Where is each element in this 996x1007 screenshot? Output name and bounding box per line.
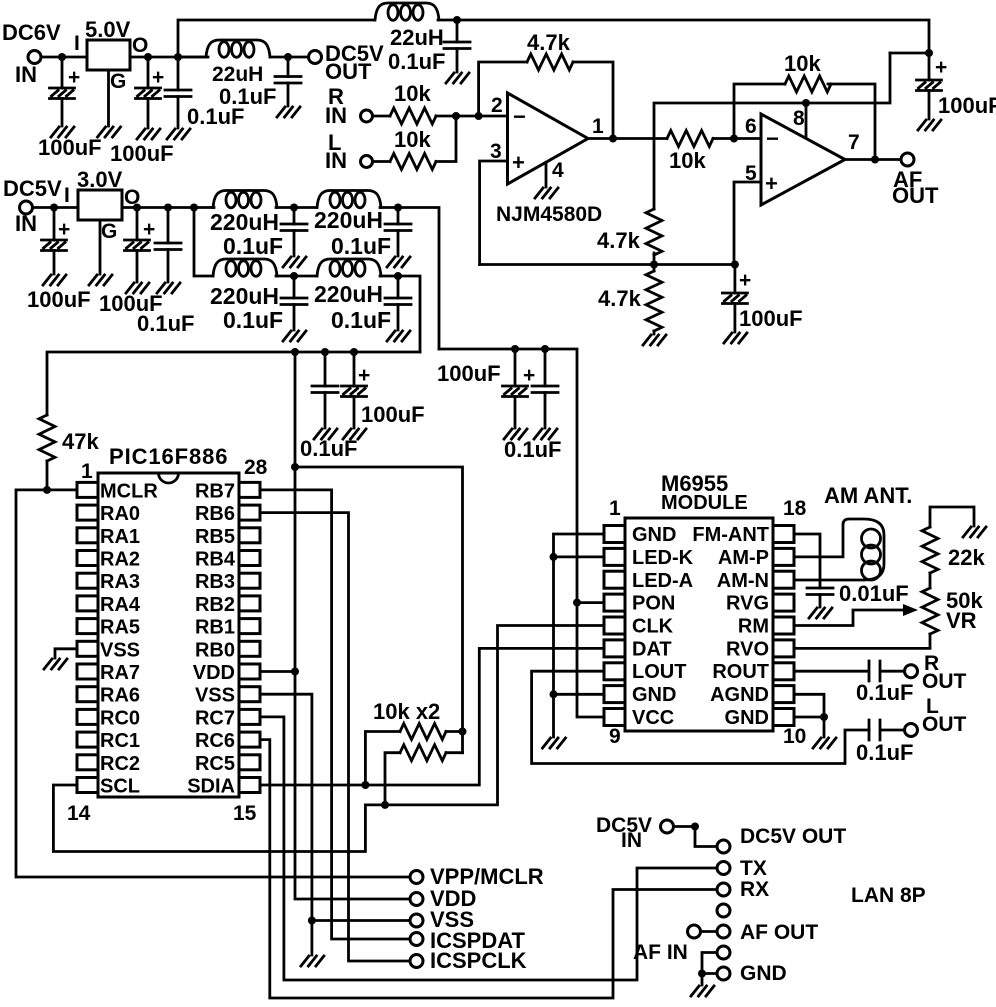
capacitor C11 0.1uF row1 [293,208,296,257]
connector DC5V IN [20,201,33,214]
pin VCC (module left 9) [604,709,625,726]
svg-text:220uH: 220uH [210,209,279,235]
pin RA6 (left 10) [77,687,98,702]
svg-text:CLK: CLK [632,616,674,638]
resistor R8 47k pullup [39,415,55,461]
svg-text:AM-N: AM-N [717,570,769,592]
pin RA5 (left 7) [77,619,98,634]
node L4 out [394,204,402,212]
wire SCL net [53,626,604,852]
pin RB3 (right 24) [239,573,260,588]
resistor R5 4.7k upper [646,209,662,255]
svg-text:DC6V: DC6V [2,20,61,45]
wire L5 to L6 [276,275,317,278]
svg-text:GND: GND [632,684,676,706]
pin RVG (module right 15) [773,594,794,611]
pin LED-A (module left 3) [604,571,625,588]
node 100uF tap [144,53,152,61]
capacitor C17 100uF bus2 [514,349,517,428]
connector TX [717,862,730,875]
pin RC0 (left 11) [77,709,98,724]
wire pin3 to bias node [480,161,508,265]
svg-text:15: 15 [233,802,257,825]
regulator U3 3.0V [78,190,122,220]
svg-text:10: 10 [783,725,806,748]
pin SCL (left 14) [77,778,98,793]
IC U4 PIC16F886 [98,473,239,797]
IC U5 M6955 MODULE [625,518,773,731]
ground LAN [691,986,714,996]
pin GND (module left 8) [604,686,625,703]
capacitor C5 0.1uF top rail [456,20,459,72]
wire to regulator input [33,206,79,209]
wire row2 to left bus [380,276,420,352]
svg-text:SCL: SCL [100,776,140,798]
svg-text:PIC16F886: PIC16F886 [109,444,228,469]
svg-text:VDD: VDD [193,662,235,684]
svg-text:0.1uF: 0.1uF [331,307,391,333]
pin RC2 (left 13) [77,755,98,770]
pin CLK (module left 5) [604,617,625,634]
svg-text:RC0: RC0 [100,707,140,729]
svg-text:OUT: OUT [922,713,967,736]
connector AF IN [717,946,730,959]
pin RC5 (right 16) [239,755,260,770]
svg-text:+: + [152,66,164,89]
wire GND pin10 [794,716,824,719]
svg-text:+: + [935,56,947,79]
pin SDIA (right 15) [239,778,260,793]
svg-text:100uF: 100uF [361,402,425,427]
svg-text:6: 6 [745,115,757,138]
svg-text:+: + [512,150,525,175]
svg-text:0.1uF: 0.1uF [504,437,561,462]
node MCLR 47k junction [43,486,51,494]
pin RB1 (right 22) [239,619,260,634]
capacitor C2 100uF output [147,57,150,128]
wire PON to rail [577,601,604,604]
svg-text:8: 8 [793,107,805,130]
capacitor C14 0.1uF row2b [397,276,400,330]
pin FM-ANT (module right 18) [773,526,794,543]
capacitor C13 0.1uF row2 [293,276,296,330]
svg-text:I: I [64,184,70,207]
wire RC6 to RX [260,740,717,998]
svg-text:100uF: 100uF [739,306,803,331]
wire L IN [373,160,391,163]
wire rail branch [890,52,929,55]
svg-text:5.0V: 5.0V [85,17,131,42]
svg-text:RA6: RA6 [100,685,140,707]
svg-text:ROUT: ROUT [712,661,769,683]
svg-text:10k: 10k [394,127,431,152]
svg-text:OUT: OUT [892,183,939,208]
pin RA0 (left 2) [77,505,98,520]
pin DAT (module left 6) [604,640,625,657]
wire row1 to right bus [380,208,439,350]
resistor R6 4.7k lower [653,265,656,272]
wire RB7 to ICSPDAT [260,490,410,939]
svg-text:RC2: RC2 [100,753,140,775]
pin VSS (left 8) [77,641,98,656]
connector DC5V OUT [717,840,730,853]
node bus2 100uF tap [511,345,519,353]
capacitor C16 100uF bus [353,352,356,428]
node bias divider [650,261,658,269]
svg-text:7: 7 [848,131,860,154]
svg-text:RA4: RA4 [100,594,141,616]
wire R5 to bias node [653,253,656,265]
node input junction [58,53,66,61]
pin RA1 (left 3) [77,528,98,543]
svg-text:18: 18 [783,497,807,520]
svg-text:0.1uF: 0.1uF [223,307,283,333]
node feedback junction [475,112,483,120]
pin PON (module left 4) [604,594,625,611]
wire AGND to ground [794,694,824,737]
svg-text:22uH: 22uH [390,25,444,50]
svg-text:14: 14 [67,802,91,825]
pin AM-N (module right 16) [773,571,794,588]
svg-text:I: I [74,32,80,55]
wire feedback loop 2 [734,84,875,160]
svg-text:RA2: RA2 [100,549,140,571]
svg-text:IN: IN [325,103,347,128]
op-amp U1b NJM4580D [761,114,845,205]
connector ICSP VSS [410,914,423,927]
svg-text:10k: 10k [394,81,431,106]
svg-text:SDIA: SDIA [187,776,235,798]
wire GND pin8 [554,693,605,696]
svg-text:0.01uF: 0.01uF [839,581,909,606]
regulator U2 5.0V [87,40,130,70]
svg-text:OUT: OUT [922,670,967,693]
capacitor C4 0.1uF [287,57,290,106]
resistor R7 10k feedback 2 [785,76,831,92]
svg-text:RX: RX [740,878,769,901]
svg-text:0.1uF: 0.1uF [856,680,913,705]
node second filter tap [190,204,198,212]
connector DC5V IN bottom [661,820,674,833]
capacitor C10 0.1uF [167,208,170,283]
svg-text:4: 4 [552,159,564,182]
wire AF IN to ground [702,953,717,986]
wire R4 to pin6 [713,137,761,140]
connector GND [717,967,730,980]
svg-text:+: + [143,218,155,241]
svg-text:+: + [68,66,80,89]
svg-text:AGND: AGND [710,684,769,706]
svg-text:1: 1 [81,460,93,483]
wire L mix riser [436,116,456,162]
wire AF OUT link [701,930,718,933]
capacitor C21 0.1uF L OUT [869,720,904,740]
svg-text:RB1: RB1 [195,617,235,639]
wire RB6 to ICSPCLK [260,513,410,961]
capacitor C18 0.1uF bus2 [544,349,547,428]
pin RB0 (right 21) [239,641,260,656]
svg-text:RC7: RC7 [195,707,235,729]
capacitor C1 100uF input [61,57,64,126]
svg-text:PON: PON [632,593,675,615]
svg-text:1: 1 [592,115,604,138]
svg-text:IN: IN [15,211,37,236]
svg-text:+: + [523,364,535,387]
svg-text:RB2: RB2 [195,594,235,616]
wire pin8 [805,103,808,139]
pin RB4 (right 25) [239,551,260,566]
wire MCLR net [16,490,410,877]
wire regulator output [122,206,214,209]
svg-text:AF IN: AF IN [633,941,688,964]
pin RC1 (left 12) [77,732,98,747]
node SCL pullup tap [381,801,389,809]
ground R6 [653,331,656,334]
wire 47k to MCLR [46,461,49,490]
svg-text:RB0: RB0 [195,639,235,661]
node PON tap [573,599,581,607]
svg-text:0.1uF: 0.1uF [388,49,445,74]
svg-text:IN: IN [325,148,347,173]
svg-text:4.7k: 4.7k [597,228,641,253]
capacitor C3 0.1uF [177,57,180,128]
connector L OUT [905,724,918,737]
svg-text:IN: IN [621,829,642,852]
svg-text:RC5: RC5 [195,753,235,775]
pin RA3 (left 5) [77,573,98,588]
node L6 out [394,272,402,280]
pin LED-K (module left 2) [604,548,625,565]
ground module rail [543,738,566,748]
svg-text:+: + [358,364,370,387]
wire pin5 to bias [734,182,761,265]
connector R IN [361,110,373,122]
svg-text:VR: VR [946,608,977,633]
pin RB6 (right 27) [239,505,260,520]
svg-text:GND: GND [740,962,787,985]
node L1 output [284,53,292,61]
svg-text:RB5: RB5 [195,526,235,548]
svg-text:FM-ANT: FM-ANT [692,524,769,546]
ground 22k [963,527,986,537]
pin AM-P (module right 17) [773,548,794,565]
svg-text:RA5: RA5 [100,617,140,639]
svg-text:LOUT: LOUT [632,661,686,683]
node pullup feed [291,463,299,471]
pin RB7 (right 28) [239,482,260,497]
capacitor C8 100uF input [53,208,56,275]
connector ICSPCLK [410,955,423,968]
svg-text:AF OUT: AF OUT [740,921,818,944]
node output AF [871,156,879,164]
pin MCLR (left 1) [77,482,98,497]
pin RC6 (right 17) [239,732,260,747]
connector spare [717,904,730,917]
connector R OUT [905,665,918,678]
op-amp U1a NJM4580D [508,93,589,184]
wire DC5V IN to OUT [674,827,717,847]
node VDD rail tap [291,348,299,356]
svg-text:220uH: 220uH [314,281,383,307]
resistor R4 10k series [667,131,713,147]
svg-text:RC6: RC6 [195,730,235,752]
svg-text:OUT: OUT [325,59,372,84]
capacitor C9 100uF output [136,208,139,283]
pin RM (module right 14) [773,617,794,634]
wire bias bus [480,263,735,266]
node pullup junction [459,728,467,736]
svg-text:LAN 8P: LAN 8P [851,884,926,907]
svg-text:MCLR: MCLR [100,480,158,502]
inductor L5 220uH row2 [213,259,277,276]
connector ICSP VDD [410,893,423,906]
node rail cap junction [925,49,933,57]
wire VR wiper to RM [794,610,908,626]
svg-text:GND: GND [725,707,769,729]
resistor R2 10k [390,154,436,170]
svg-text:100uF: 100uF [27,287,91,312]
node bus 0.1uF tap [321,348,329,356]
svg-text:RM: RM [738,616,769,638]
svg-text:0.1uF: 0.1uF [137,311,194,336]
inductor L2 22uH (top rail) [375,3,439,20]
svg-text:220uH: 220uH [314,207,383,233]
potentiometer VR1 50k [929,573,932,588]
capacitor C20 0.1uF R OUT [794,661,904,681]
node L3 out [290,204,298,212]
node L mix junction [452,112,460,120]
node GND10 tap [820,713,828,721]
resistor R9 10k SDA pullup [365,732,400,786]
connector AF OUT [717,925,730,938]
svg-text:VSS: VSS [195,685,235,707]
wire op-amp2 output [845,158,901,161]
wire VDD rail [295,352,410,899]
capacitor C19 0.01uF [807,588,833,595]
node PIC VDD tap [291,668,299,676]
wire FM-ANT to cap [794,534,820,588]
wire R IN [373,115,391,118]
svg-text:0.1uF: 0.1uF [300,436,357,461]
svg-text:RB3: RB3 [195,571,235,593]
svg-text:RA7: RA7 [100,662,140,684]
node 100uF tap [133,204,141,212]
wire op-amp1 output [588,137,667,140]
svg-text:+: + [765,171,778,196]
connector AF OUT [901,153,914,166]
capacitor C12 0.1uF row1b [397,208,400,257]
svg-text:100uF: 100uF [437,361,501,386]
svg-text:AM ANT.: AM ANT. [824,483,912,508]
svg-text:AM-P: AM-P [718,547,769,569]
svg-text:RVO: RVO [726,638,769,660]
node bus 100uF tap [350,348,358,356]
node 0.1uF tap [164,204,172,212]
svg-text:10k: 10k [784,51,821,76]
svg-text:G: G [101,220,117,243]
svg-text:VSS: VSS [100,639,140,661]
svg-text:GND: GND [632,524,676,546]
connector DC5V OUT [309,51,322,64]
pin RA2 (left 4) [77,551,98,566]
svg-text:ICSPCLK: ICSPCLK [430,948,527,973]
inductor L4 220uH row1 [317,191,381,208]
svg-text:VCC: VCC [632,707,674,729]
wire feedback loop 1 [479,62,613,138]
svg-text:RA0: RA0 [100,503,140,525]
inductor L1 22uH (5V row) [178,56,206,59]
svg-text:1: 1 [609,497,621,520]
svg-text:+: + [58,218,70,241]
wire right 3V bus [439,349,604,717]
node LED-K tap [550,553,558,561]
svg-text:−: − [513,104,526,129]
wire RC7 to TX [260,717,717,980]
wire pullup feed [295,467,463,753]
svg-text:DAT: DAT [632,638,672,660]
node SDIA pullup tap [361,781,369,789]
wire left 3V bus [47,352,420,415]
svg-text:DC5V OUT: DC5V OUT [740,825,846,848]
svg-text:G: G [110,70,126,93]
svg-text:220uH: 220uH [210,283,279,309]
svg-text:100uF: 100uF [110,141,174,166]
ground ICSP VSS [301,956,324,966]
svg-text:100uF: 100uF [938,93,996,118]
svg-text:22uH: 22uH [212,63,263,86]
node DC5V junction [691,823,699,831]
pin ROUT (module right 12) [773,663,794,680]
resistor R1 10k [390,108,436,124]
resistor R11 22k [930,507,974,527]
pin RA7 (left 9) [77,664,98,679]
ground regulator G pin [99,220,102,274]
wiper arrow [903,604,918,616]
node bias cap [731,261,739,269]
svg-text:RA1: RA1 [100,526,140,548]
pin GND (module left 1) [604,526,625,543]
svg-text:22k: 22k [948,545,985,570]
svg-text:100uF: 100uF [38,135,102,160]
svg-text:0.1uF: 0.1uF [223,233,283,259]
svg-text:NJM4580D: NJM4580D [496,203,602,226]
connector AF OUT link left [688,925,701,938]
node GND8 tap [550,690,558,698]
svg-text:RB6: RB6 [195,503,235,525]
connector VPP/MCLR [410,871,423,884]
resistor R3 4.7k feedback [527,54,573,70]
capacitor C6 100uF bias [734,265,737,333]
inductor L3 220uH row1 [213,191,277,208]
wire DC6V IN to regulator input [41,56,87,59]
node output junction [609,135,617,143]
node input junction [50,204,58,212]
wire PIC VSS right to ground [260,694,312,955]
svg-text:RB4: RB4 [195,549,236,571]
svg-text:0.1uF: 0.1uF [856,740,913,765]
wire module ground rail [554,534,605,737]
inductor L6 220uH row2 [317,259,381,276]
pin RA4 (left 6) [77,596,98,611]
svg-text:9: 9 [609,725,621,748]
wire riser to top rail [178,20,374,57]
pin RVO (module right 13) [773,640,794,657]
wire row2 feed [194,208,213,277]
svg-text:LED-A: LED-A [632,570,693,592]
pin GND (module right 10) [773,709,794,726]
wire bias supply from rail [654,53,890,209]
ground PIC VSS left [55,649,77,658]
